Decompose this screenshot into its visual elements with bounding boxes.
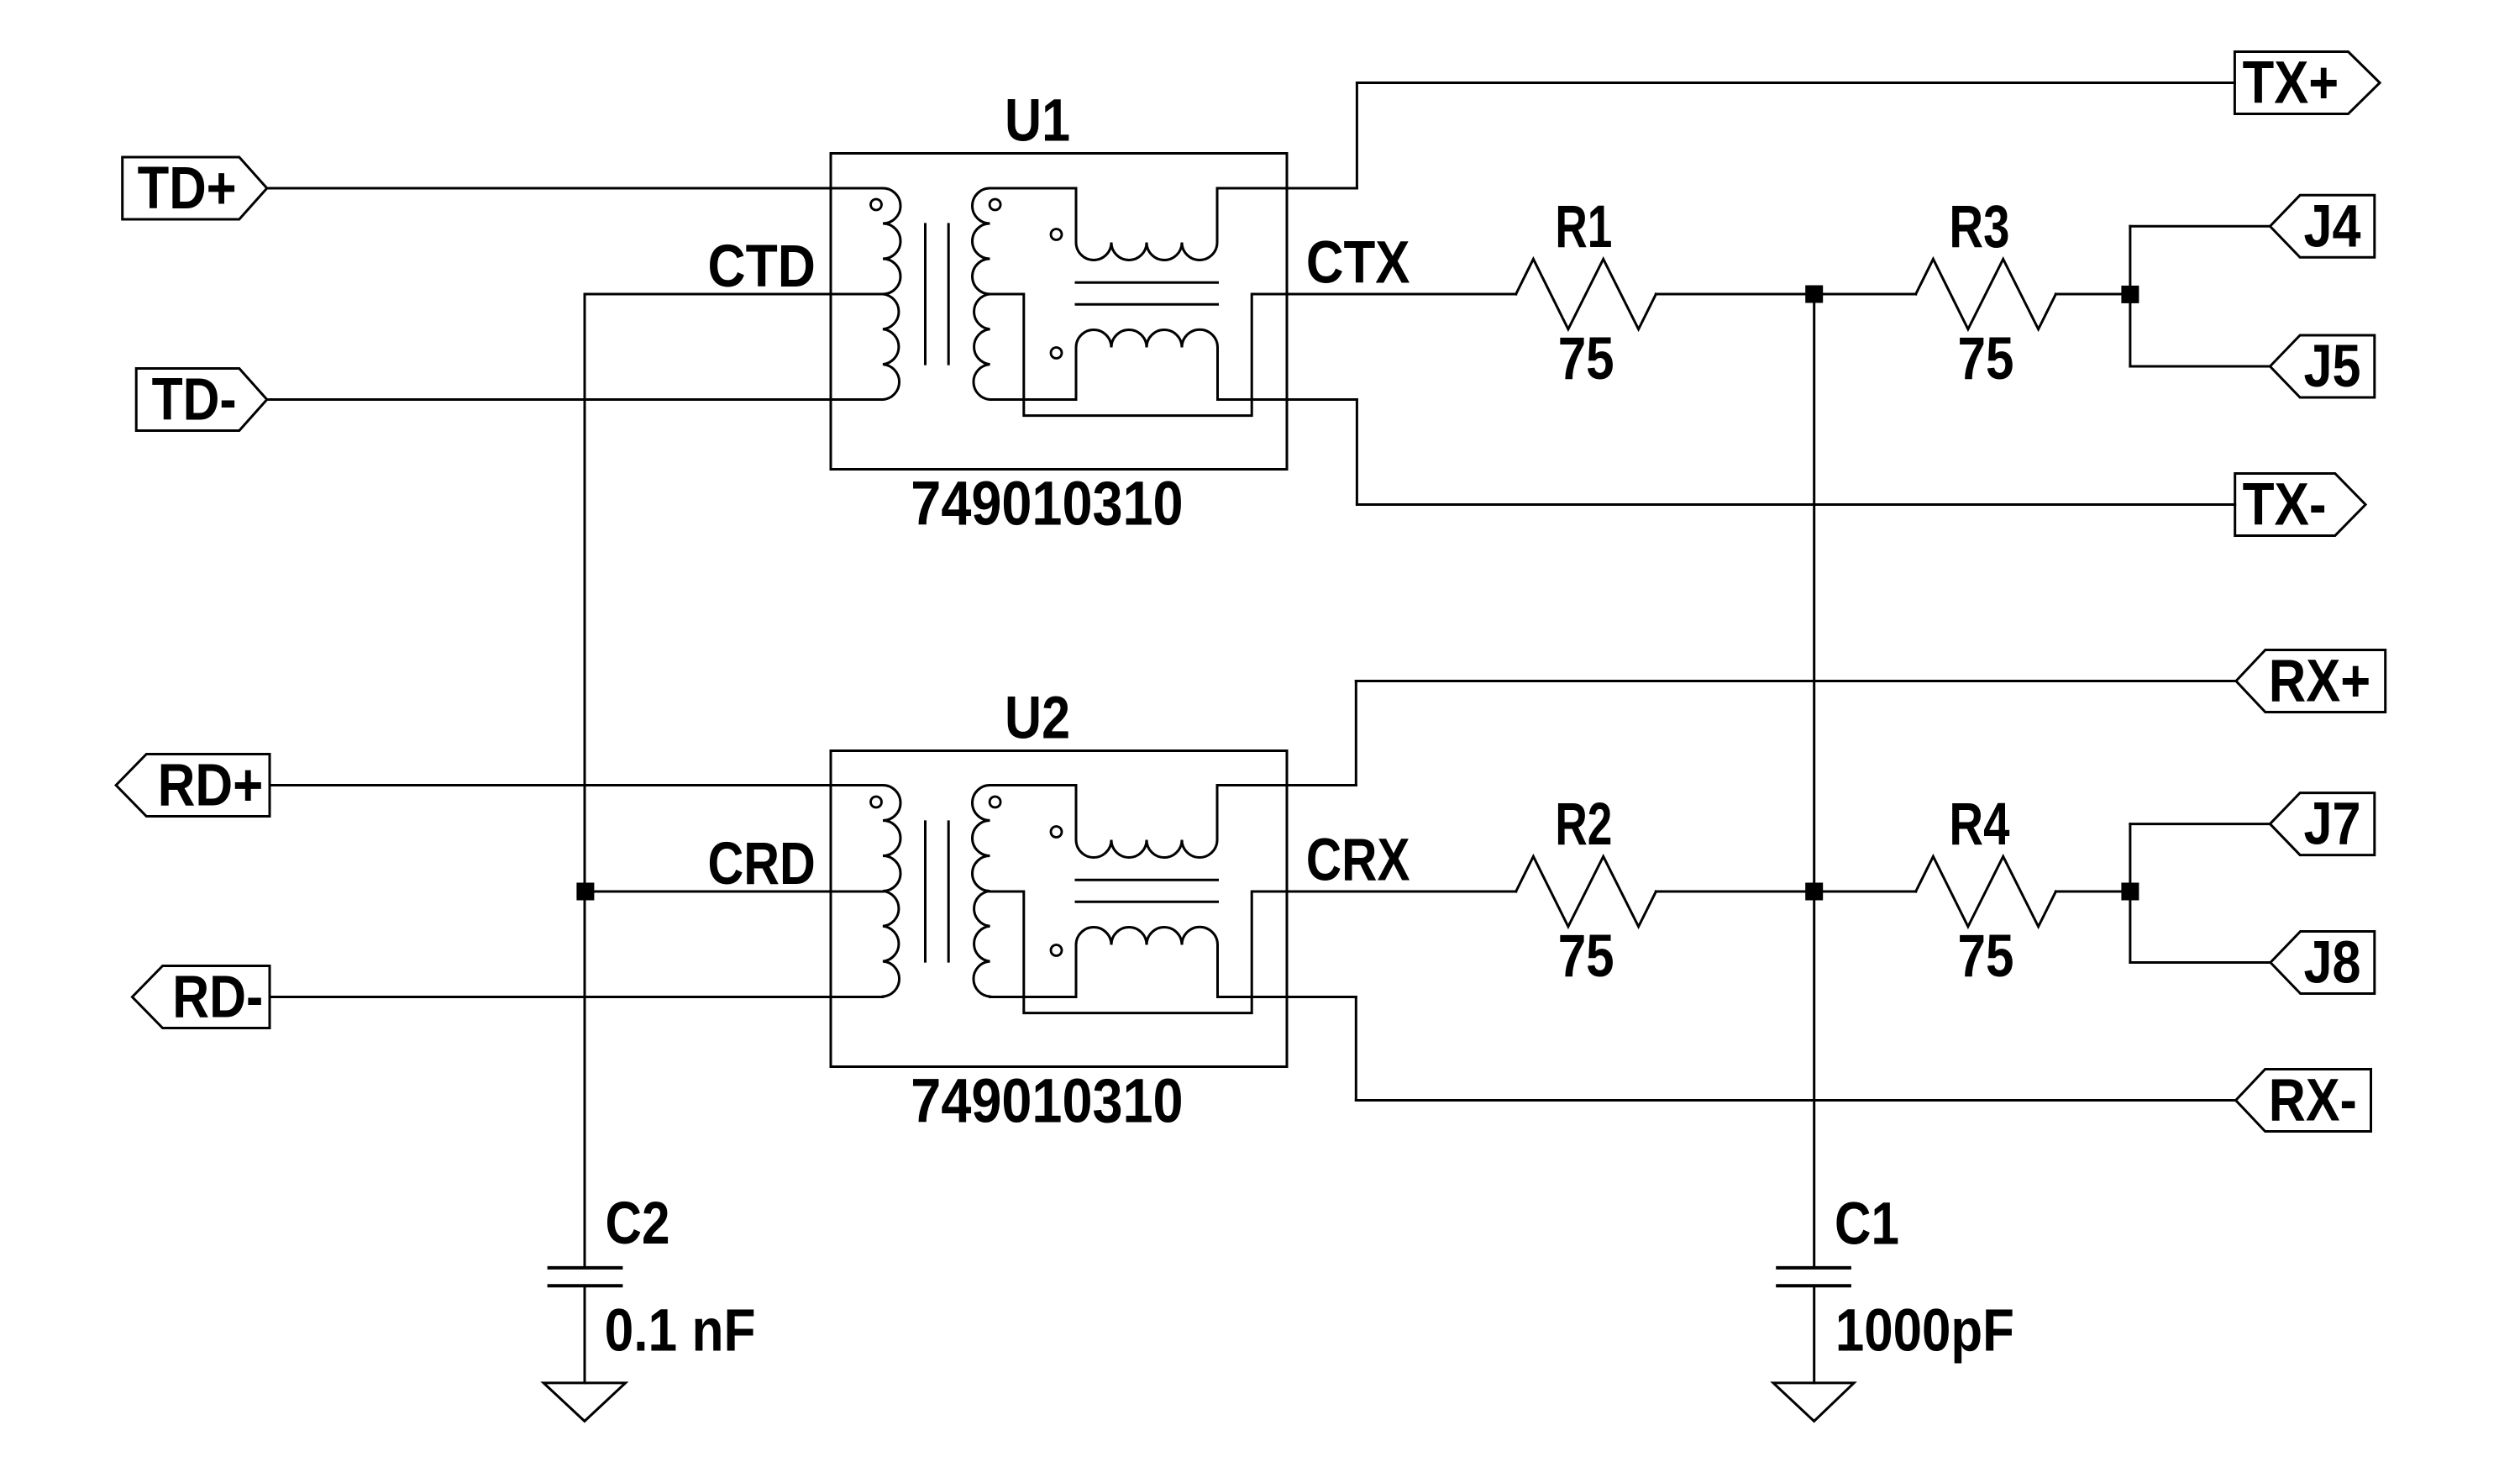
svg-text:RD-: RD- bbox=[172, 965, 263, 1031]
wire RX+ exit bbox=[1217, 784, 1356, 786]
wire C1 to ground bbox=[1813, 1286, 1815, 1383]
svg-text:CRX: CRX bbox=[1306, 828, 1410, 894]
wire RX- exit bbox=[1218, 996, 1357, 998]
flag TD- bbox=[136, 369, 267, 431]
capacitor C1 plates bbox=[1777, 1268, 1850, 1286]
wire junction to R3 bbox=[1814, 293, 1916, 296]
transformer U1 horizontal core bbox=[1076, 282, 1218, 304]
svg-text:1000pF: 1000pF bbox=[1835, 1298, 2014, 1365]
junction CRD bbox=[576, 883, 594, 901]
wire C2 to ground bbox=[584, 1286, 586, 1383]
wire R2 to junction bbox=[1656, 891, 1814, 893]
flag RD- bbox=[132, 966, 270, 1028]
svg-text:J8: J8 bbox=[2304, 930, 2361, 997]
svg-text:R3: R3 bbox=[1949, 194, 2009, 260]
svg-text:TD+: TD+ bbox=[138, 155, 237, 222]
flag RX+ bbox=[2236, 650, 2386, 713]
svg-text:RX-: RX- bbox=[2269, 1068, 2357, 1134]
transformer U1 phase dot output top bbox=[1051, 229, 1062, 240]
flag TD+ bbox=[123, 157, 267, 219]
wire RX+ riser bbox=[1355, 681, 1357, 786]
wire TX+ riser bbox=[1356, 83, 1358, 189]
wire J8 bbox=[2130, 961, 2271, 964]
resistor R3 bbox=[1916, 259, 2056, 329]
flag RX- bbox=[2236, 1070, 2371, 1132]
wire TX- bbox=[1357, 503, 2234, 506]
flag RD+ bbox=[116, 755, 270, 817]
wire J7 bbox=[2130, 823, 2271, 825]
resistor R2 bbox=[1516, 856, 1656, 927]
transformer U1 phase dot primary bbox=[871, 199, 882, 210]
wire J4-J5 riser bbox=[2129, 226, 2131, 366]
flag J4 bbox=[2270, 195, 2374, 257]
transformer U1 phase dot output bottom bbox=[1051, 348, 1062, 359]
svg-text:U1: U1 bbox=[1005, 88, 1070, 155]
svg-text:RD+: RD+ bbox=[158, 753, 264, 819]
svg-text:75: 75 bbox=[1958, 326, 2014, 392]
svg-text:749010310: 749010310 bbox=[911, 1065, 1183, 1135]
op U1 box bbox=[831, 154, 1287, 470]
svg-text:75: 75 bbox=[1558, 923, 1614, 990]
svg-text:R4: R4 bbox=[1949, 791, 2009, 858]
transformer U2 phase dot primary bbox=[871, 797, 882, 807]
wire CTD bbox=[585, 293, 883, 296]
flag TX+ bbox=[2234, 52, 2380, 114]
svg-text:J7: J7 bbox=[2304, 791, 2361, 858]
op U2 box bbox=[831, 751, 1287, 1067]
svg-text:U2: U2 bbox=[1005, 686, 1070, 752]
svg-text:R2: R2 bbox=[1555, 791, 1612, 858]
wire RX+ bbox=[1356, 680, 2236, 682]
wire RX- riser bbox=[1355, 997, 1357, 1101]
ground below C2 bbox=[543, 1383, 626, 1422]
transformer U1 primary winding bbox=[883, 188, 900, 399]
svg-text:TX+: TX+ bbox=[2243, 50, 2339, 117]
flag J5 bbox=[2270, 335, 2374, 397]
wire TD+ bbox=[267, 187, 883, 190]
svg-text:75: 75 bbox=[1558, 326, 1614, 392]
transformer U2 vertical core bbox=[926, 822, 949, 961]
transformer U2 horizontal core bbox=[1076, 880, 1218, 902]
ground below C1 bbox=[1773, 1383, 1854, 1422]
wire TX+ exit bbox=[1217, 187, 1357, 190]
transformer U2 phase dot secondary bbox=[990, 797, 1000, 807]
transformer U1 vertical core bbox=[926, 224, 949, 364]
svg-text:TD-: TD- bbox=[152, 367, 237, 434]
junction R2-R4 bbox=[1805, 883, 1823, 901]
transformer U2 phase dot output bottom bbox=[1051, 945, 1062, 956]
transformer U1 output bottom winding bbox=[1076, 329, 1218, 399]
wire R3 to junction bbox=[2055, 293, 2130, 296]
transformer U2 primary winding bbox=[883, 786, 900, 997]
svg-text:CTD: CTD bbox=[708, 234, 816, 300]
svg-text:CRD: CRD bbox=[708, 831, 816, 897]
transformer U1 phase dot secondary bbox=[990, 199, 1000, 210]
svg-text:0.1 nF: 0.1 nF bbox=[605, 1298, 756, 1365]
transformer U2 output top winding bbox=[1076, 786, 1217, 858]
wire TX+ bbox=[1357, 82, 2234, 84]
wire TX- riser bbox=[1356, 400, 1358, 505]
svg-text:C2: C2 bbox=[606, 1191, 670, 1257]
wire RD- bbox=[270, 996, 883, 998]
wire R4 to junction bbox=[2055, 891, 2130, 893]
transformer U1 output top winding bbox=[1076, 188, 1217, 260]
svg-text:RX+: RX+ bbox=[2269, 649, 2370, 715]
wire CRD bbox=[585, 891, 883, 893]
svg-text:J5: J5 bbox=[2304, 334, 2361, 400]
resistor R4 bbox=[1916, 856, 2056, 927]
wire TX- exit bbox=[1218, 398, 1357, 401]
wire U1 CTX center tap jog bbox=[990, 294, 1516, 416]
wire CTD vertical to C2 bbox=[584, 294, 586, 1268]
wire U1 secondary bottom to output winding bbox=[990, 398, 1077, 401]
flag J8 bbox=[2271, 932, 2375, 994]
junction R3-J4J5 bbox=[2121, 286, 2139, 303]
svg-text:J4: J4 bbox=[2304, 193, 2361, 260]
transformer U2 secondary winding bbox=[973, 786, 990, 997]
capacitor C2 plates bbox=[549, 1268, 622, 1286]
wire RX- bbox=[1356, 1099, 2235, 1102]
wire U2 secondary bottom to output winding bbox=[990, 996, 1077, 998]
wire U1 secondary top to output winding bbox=[990, 187, 1077, 190]
svg-text:R1: R1 bbox=[1555, 194, 1612, 260]
wire C1 column bbox=[1813, 294, 1815, 1268]
svg-text:749010310: 749010310 bbox=[911, 468, 1183, 538]
transformer U1 secondary winding bbox=[973, 188, 990, 399]
svg-text:TX-: TX- bbox=[2243, 472, 2327, 539]
svg-text:75: 75 bbox=[1958, 923, 2014, 990]
transformer U2 output bottom winding bbox=[1076, 927, 1218, 997]
wire J5 bbox=[2130, 365, 2271, 368]
wire R1 to junction bbox=[1656, 293, 1814, 296]
svg-text:C1: C1 bbox=[1835, 1191, 1899, 1258]
junction R1-R3 bbox=[1805, 286, 1823, 303]
transformer U2 phase dot output top bbox=[1051, 827, 1062, 838]
wire J4 bbox=[2130, 225, 2271, 228]
resistor R1 bbox=[1516, 259, 1656, 329]
wire TD- bbox=[267, 398, 883, 401]
junction R4-J7J8 bbox=[2121, 883, 2139, 901]
wire U2 secondary top to output winding bbox=[990, 784, 1077, 786]
wire junction to R4 bbox=[1814, 891, 1916, 893]
wire RD+ bbox=[270, 784, 883, 786]
flag J7 bbox=[2270, 793, 2374, 855]
wire J7-J8 riser bbox=[2129, 824, 2131, 963]
wire U2 CRX center tap jog bbox=[990, 891, 1516, 1013]
flag TX- bbox=[2235, 474, 2365, 536]
svg-text:CTX: CTX bbox=[1306, 230, 1410, 297]
